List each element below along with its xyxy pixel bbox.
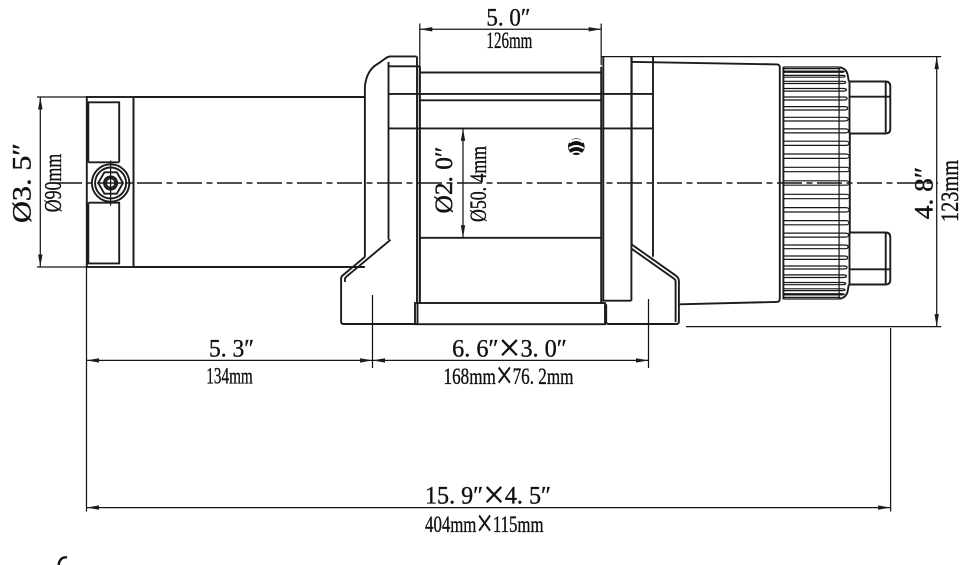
left foot right edge bbox=[417, 303, 419, 324]
drum tie line lower bbox=[420, 99, 601, 101]
left bracket plate right edge bbox=[388, 62, 390, 240]
right foot inner diagonal bbox=[632, 249, 676, 322]
right flange column edges bbox=[603, 57, 631, 301]
bottom dim right extension bbox=[648, 299, 650, 368]
left flange column edges bbox=[417, 56, 420, 303]
svg-text:5. 3″: 5. 3″ bbox=[209, 335, 254, 363]
motor ribs left edge bbox=[782, 67, 784, 299]
top terminal block bbox=[850, 82, 891, 134]
left dim line bbox=[39, 97, 41, 267]
left dim extension ticks bbox=[37, 97, 89, 267]
right dim top extension bbox=[601, 56, 941, 58]
left end cap outer bbox=[87, 97, 134, 267]
right bracket plate left lower edge bbox=[631, 57, 633, 244]
left bracket top tab bbox=[389, 56, 420, 66]
drum barrel top edge bbox=[389, 127, 653, 129]
motor rib fins bbox=[783, 67, 849, 299]
hex bolt inner circles bbox=[104, 176, 117, 189]
drum face left edge bbox=[419, 66, 421, 303]
drum dia dim line bbox=[462, 128, 464, 237]
right dim arrows bbox=[935, 57, 939, 70]
left end cap inner upper bbox=[88, 102, 119, 162]
bottom row1 arrows bbox=[87, 358, 100, 362]
right dim line bbox=[936, 57, 938, 327]
drum face right edge bbox=[600, 67, 602, 303]
left bracket ogee curve bbox=[365, 57, 390, 87]
top dim arrows bbox=[420, 27, 433, 31]
overall dim right extension bbox=[890, 328, 892, 512]
bottom terminal inner lines bbox=[850, 233, 891, 284]
top dim extensions bbox=[420, 24, 601, 71]
top dim line bbox=[420, 28, 601, 30]
stray glyph bottom left bbox=[59, 557, 68, 565]
right bracket plate right edge bbox=[652, 57, 654, 257]
motor end cap top corner bbox=[840, 67, 849, 81]
centerline main bbox=[57, 182, 938, 184]
tube left joint bbox=[133, 97, 135, 267]
right dim bottom extension bbox=[686, 326, 941, 328]
svg-text:5. 0″: 5. 0″ bbox=[486, 4, 530, 31]
drum dia arrows bbox=[461, 128, 465, 141]
drum bottom band bbox=[415, 303, 605, 324]
left foot inner diagonal bbox=[345, 240, 391, 282]
hex bolt outer circles bbox=[92, 164, 129, 201]
drum barrel bottom edge bbox=[420, 237, 601, 239]
right flange bottom line bbox=[601, 300, 631, 302]
motor end cap bottom corner bbox=[840, 285, 849, 299]
right foot outer diagonal bbox=[606, 245, 679, 325]
svg-text:Ø3. 5″: Ø3. 5″ bbox=[8, 143, 37, 223]
svg-text:126mm: 126mm bbox=[486, 29, 532, 54]
left dim arrows bbox=[38, 97, 42, 110]
svg-text:4. 8″: 4. 8″ bbox=[909, 167, 938, 220]
overall arrows bbox=[87, 505, 100, 509]
drum tie line upper bbox=[389, 93, 653, 95]
left end cap inner lower bbox=[88, 203, 119, 264]
left foot outer diagonal bbox=[341, 257, 417, 324]
svg-text:Ø2. 0″: Ø2. 0″ bbox=[431, 147, 458, 214]
tube top edge bbox=[134, 96, 365, 98]
motor end cap edge between terminals bbox=[849, 134, 851, 233]
svg-text:134mm: 134mm bbox=[206, 365, 253, 390]
svg-text:123mm: 123mm bbox=[936, 160, 963, 222]
top terminal inner lines bbox=[850, 82, 891, 133]
screw detail bbox=[568, 138, 585, 155]
bottom dim line row1 bbox=[87, 359, 649, 361]
drum top band line bbox=[420, 72, 601, 74]
bottom dim mid extension bbox=[372, 295, 374, 368]
overall dim line bbox=[87, 507, 891, 509]
bottom dim left extension bbox=[86, 267, 88, 512]
motor ribs joint line bbox=[838, 68, 840, 299]
svg-text:Ø50. 4mm: Ø50. 4mm bbox=[467, 146, 492, 222]
hex bolt vertical centerline bbox=[110, 161, 112, 206]
tube bottom edge bbox=[134, 266, 365, 268]
bottom terminal block bbox=[850, 233, 891, 285]
svg-text:Ø90mm: Ø90mm bbox=[39, 153, 66, 212]
motor top edge sloped bbox=[632, 62, 780, 304]
left bracket plate left edge bbox=[364, 87, 366, 257]
hex bolt hexagon bbox=[98, 172, 123, 193]
